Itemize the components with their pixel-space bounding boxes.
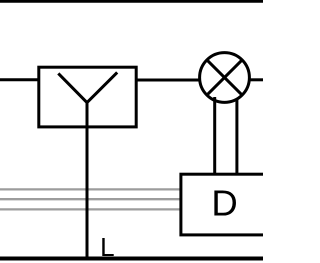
device D (rectangle, clipped at right edge) xyxy=(181,174,291,235)
wire: junction box to lamp xyxy=(136,79,201,82)
lamp X diagonal 2 xyxy=(207,60,242,95)
svg-text:L: L xyxy=(100,232,114,262)
lamp X diagonal 1 xyxy=(207,60,242,95)
svg-text:D: D xyxy=(211,183,237,224)
lamp (circle) xyxy=(200,53,250,103)
wire: gray cable conductor 2 xyxy=(0,198,180,200)
wire: lamp left drop to device D xyxy=(213,97,216,176)
wire: lamp to right edge xyxy=(249,78,264,81)
wire: gray cable conductor 3 xyxy=(0,208,180,210)
wire: gray cable conductor 1 xyxy=(0,188,180,190)
wire: top bus line xyxy=(0,0,263,3)
junction box Y symbol right arm xyxy=(87,72,117,102)
junction box Y symbol left arm xyxy=(58,73,87,102)
wire: lamp right drop to device D xyxy=(235,95,238,176)
junction box (rectangle) xyxy=(39,67,136,127)
wire: Y stem down to bottom bus xyxy=(86,102,89,259)
wire: left feed into junction box xyxy=(0,78,40,81)
wire: bottom bus line L xyxy=(0,257,263,261)
